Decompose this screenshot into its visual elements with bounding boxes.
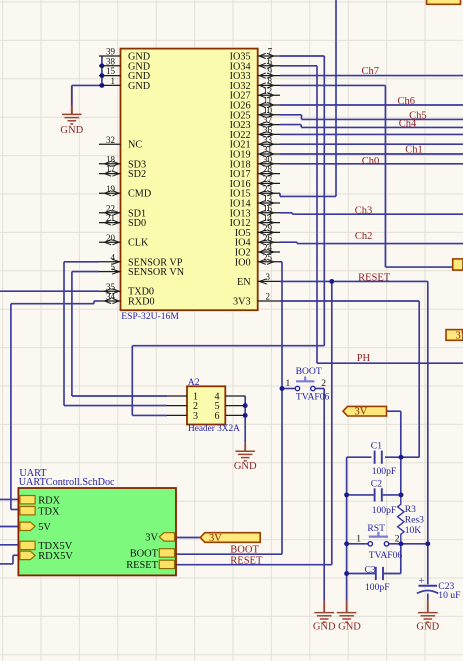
svg-text:4: 4 — [111, 252, 116, 262]
svg-text:39: 39 — [106, 47, 116, 57]
svg-text:BOOT: BOOT — [230, 544, 259, 555]
svg-text:BOOT: BOOT — [130, 549, 159, 560]
svg-text:32: 32 — [106, 135, 115, 145]
svg-text:Ch2: Ch2 — [355, 231, 373, 242]
svg-text:C1: C1 — [371, 440, 382, 451]
svg-text:Ch1: Ch1 — [405, 145, 423, 156]
svg-text:RDX: RDX — [38, 495, 60, 506]
svg-text:RESET: RESET — [230, 555, 263, 566]
svg-text:2: 2 — [395, 535, 400, 545]
svg-text:100pF: 100pF — [372, 466, 397, 477]
svg-text:GND: GND — [60, 125, 83, 136]
svg-text:RDX5V: RDX5V — [38, 551, 73, 562]
svg-text:Ch4: Ch4 — [399, 119, 417, 130]
svg-text:A2: A2 — [188, 377, 200, 388]
svg-text:BOOT: BOOT — [296, 366, 322, 377]
svg-text:GND: GND — [416, 622, 439, 633]
svg-text:CLK: CLK — [128, 238, 149, 249]
svg-text:C2: C2 — [371, 479, 382, 490]
svg-text:3: 3 — [266, 272, 271, 282]
svg-text:Res3: Res3 — [405, 514, 424, 525]
svg-text:2: 2 — [266, 292, 271, 302]
svg-text:Header 3X2A: Header 3X2A — [188, 424, 240, 434]
svg-text:3V3: 3V3 — [233, 297, 251, 308]
svg-text:EN: EN — [237, 277, 251, 288]
svg-text:UARTControll.SchDoc: UARTControll.SchDoc — [19, 477, 115, 488]
svg-text:GND: GND — [128, 81, 150, 92]
svg-text:3V: 3V — [355, 407, 368, 418]
svg-text:3V: 3V — [209, 533, 222, 544]
svg-text:5V: 5V — [38, 522, 51, 533]
svg-text:TVAF06: TVAF06 — [296, 392, 330, 403]
svg-text:Ch3: Ch3 — [355, 205, 373, 216]
svg-text:3V: 3V — [145, 533, 158, 544]
svg-text:Ch7: Ch7 — [362, 66, 380, 77]
svg-text:1: 1 — [286, 379, 291, 389]
svg-text:GND: GND — [338, 622, 361, 633]
svg-text:10 uF: 10 uF — [438, 590, 460, 601]
svg-text:CMD: CMD — [128, 189, 151, 200]
svg-text:SD0: SD0 — [128, 218, 146, 229]
svg-text:SD2: SD2 — [128, 169, 146, 180]
svg-text:3: 3 — [193, 411, 198, 422]
svg-text:1: 1 — [111, 76, 116, 86]
svg-text:ESP-32U-16M: ESP-32U-16M — [121, 311, 179, 322]
svg-text:NC: NC — [128, 140, 142, 151]
svg-text:C3: C3 — [365, 565, 376, 576]
svg-text:RESET: RESET — [358, 273, 391, 284]
svg-text:100pF: 100pF — [372, 505, 397, 516]
svg-text:RXD0: RXD0 — [128, 297, 155, 308]
svg-text:RESET: RESET — [126, 560, 158, 571]
svg-text:5: 5 — [111, 262, 116, 272]
svg-text:1: 1 — [356, 535, 361, 545]
svg-text:2: 2 — [321, 379, 326, 389]
svg-text:TVAF06: TVAF06 — [369, 550, 403, 561]
svg-text:100pF: 100pF — [365, 582, 390, 593]
svg-text:SENSOR VN: SENSOR VN — [128, 267, 185, 278]
svg-text:10K: 10K — [405, 525, 422, 536]
svg-text:GND: GND — [234, 461, 257, 472]
svg-text:IO0: IO0 — [235, 257, 251, 268]
svg-text:PH: PH — [357, 353, 371, 364]
svg-text:3V: 3V — [456, 331, 463, 342]
svg-text:TDX: TDX — [38, 506, 60, 517]
svg-text:Ch6: Ch6 — [398, 96, 416, 107]
svg-text:38: 38 — [106, 56, 116, 66]
svg-text:+: + — [419, 576, 425, 587]
svg-text:GND: GND — [313, 622, 336, 633]
svg-text:15: 15 — [106, 66, 116, 76]
svg-text:RST: RST — [367, 523, 385, 534]
svg-text:Ch0: Ch0 — [362, 156, 380, 167]
svg-text:6: 6 — [215, 411, 220, 422]
